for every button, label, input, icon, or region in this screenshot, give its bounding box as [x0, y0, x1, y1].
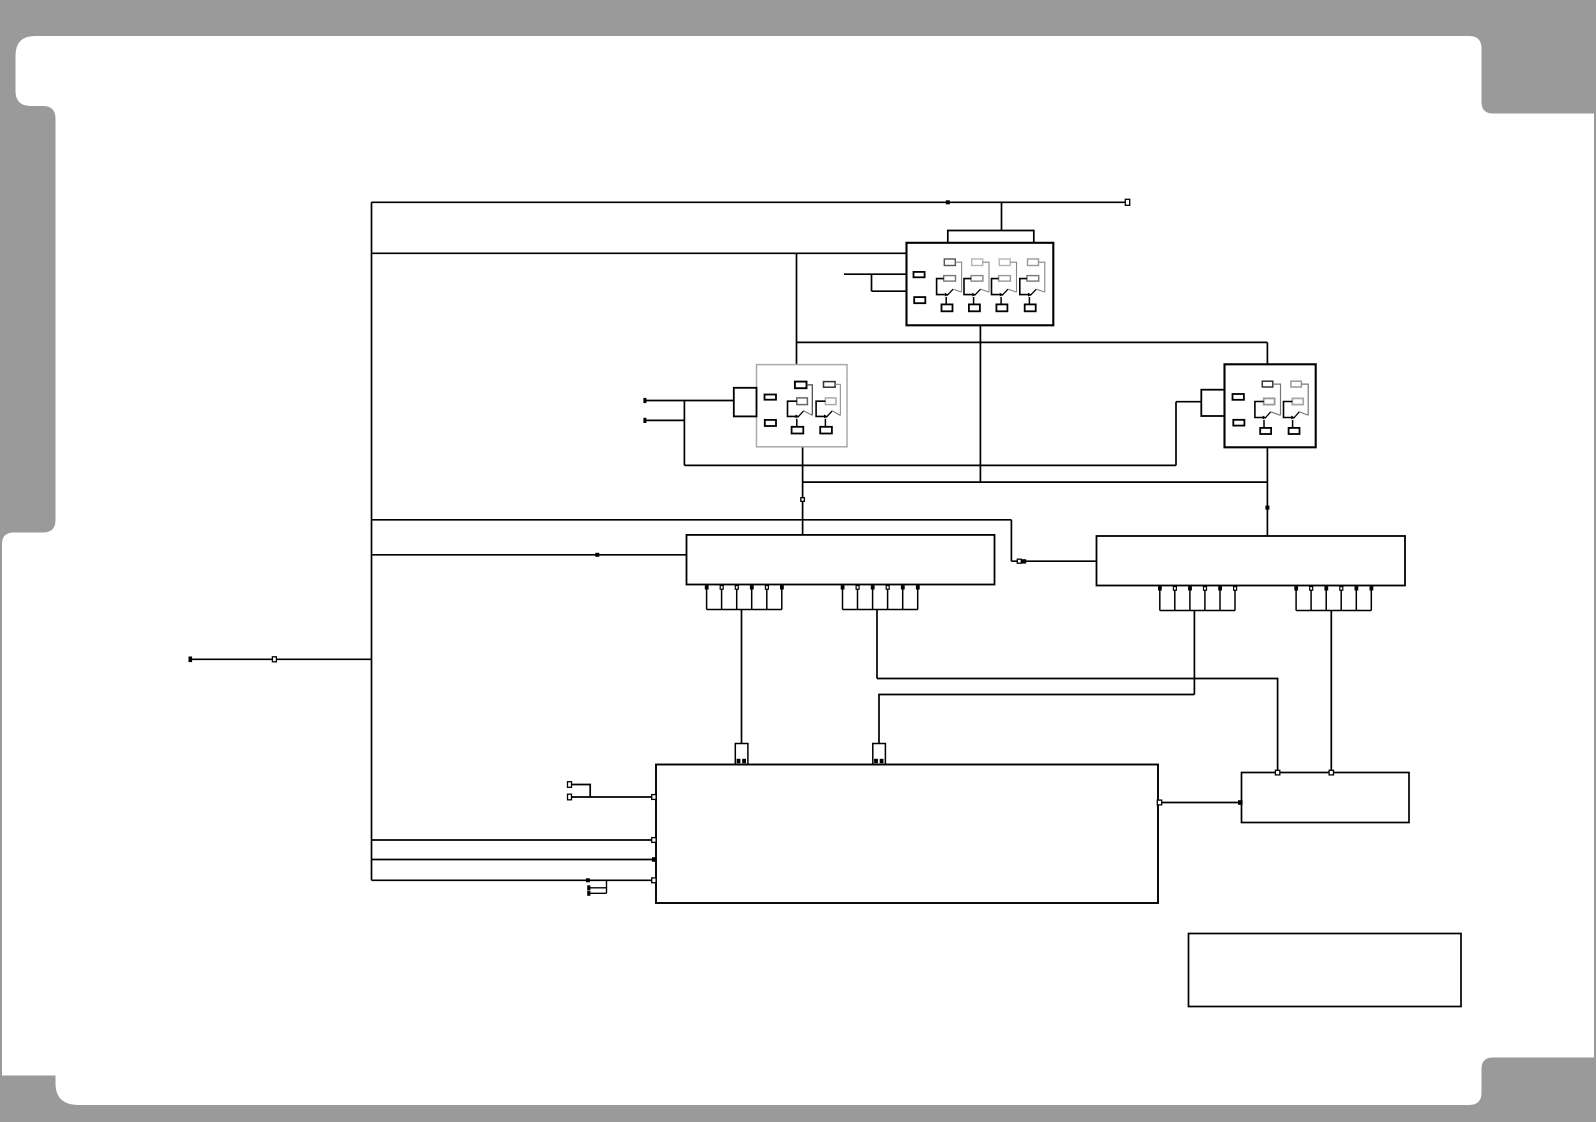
wire left input line [190, 658, 371, 660]
wire cross line to right relay [797, 341, 1268, 343]
U2 pin rect upper [765, 395, 777, 400]
U2 pin rect lower [765, 420, 776, 426]
stub connector S2 on U6 [873, 744, 886, 765]
wire to lower right box [877, 679, 1278, 771]
wire input line 1 [645, 400, 734, 402]
U1 pin rect lower [914, 297, 925, 303]
stub S1 pins [737, 759, 741, 763]
wire connector group2 down [876, 610, 878, 679]
relay cell K5 [788, 382, 813, 434]
pin on U6 output [1157, 800, 1161, 805]
wire into right long box [1011, 560, 1096, 562]
wire bus branch to left long box [372, 554, 687, 556]
relay cell K3 [992, 259, 1017, 311]
connector pin group 4 under U5 [1296, 587, 1371, 611]
mid relay box U2 [757, 365, 848, 447]
junction on right relay output [1265, 506, 1269, 510]
right driver box U5 [1097, 536, 1406, 586]
wire lower cross line [684, 464, 1176, 466]
wire tie line between relay outputs [803, 481, 1268, 483]
pin squares group 1 [705, 585, 784, 589]
connector pin group 1 under U4 [707, 586, 782, 610]
wire mid relay output [802, 447, 804, 535]
wire connector group4 down [1330, 611, 1332, 771]
wire top box output [979, 325, 981, 482]
pin squares group 2 [841, 585, 920, 589]
wire right bracket feed [1176, 401, 1201, 403]
jumper terminal 2 [587, 891, 590, 896]
pin on U7 top 2 [1329, 770, 1333, 775]
wire bus to big box pin 1 [372, 839, 655, 841]
left driver box U4 [687, 535, 995, 585]
wire mid relay feed vertical [796, 253, 798, 364]
pin squares group 3 [1158, 586, 1222, 590]
lower right box U7 [1242, 773, 1410, 823]
U3 pin rect lower [1233, 420, 1244, 426]
pin on U6 input 1 [652, 795, 656, 800]
relay cell K2 [964, 259, 989, 311]
top relay box U1 [907, 243, 1054, 325]
wire big box to lower right box [1158, 802, 1242, 804]
U1 pin rect upper [914, 272, 925, 277]
wire bus to big box pin 2 [372, 859, 655, 861]
stub connector S1 on U6 [735, 744, 748, 765]
wire right input vertical [1175, 402, 1177, 466]
relay cell K7 [1255, 381, 1281, 434]
connector mark on mid relay output [801, 498, 805, 502]
wire connector group3 down [1193, 611, 1195, 695]
connector bracket above U1 [948, 231, 1034, 243]
wire input join vertical [683, 401, 685, 466]
junction on top rail [946, 200, 950, 204]
wire stub2 riser [879, 695, 1194, 744]
terminal input 2 [643, 418, 646, 423]
pin on U6 input 2 [652, 838, 656, 843]
main control box U6 [656, 765, 1158, 904]
wire stub line A [844, 273, 907, 275]
pin on U7 top 1 [1275, 770, 1279, 775]
wire jumper vertical [606, 880, 608, 893]
wire bracket feed [1001, 202, 1003, 230]
U3 pin rect upper [1233, 394, 1244, 400]
connector pin group 3 under U5 [1160, 587, 1235, 611]
wire top rail [372, 201, 1128, 203]
pin on U6 input 4 [652, 878, 656, 883]
terminal end of top rail [1125, 199, 1129, 205]
wire bus to big box pin 3 [372, 879, 655, 881]
terminal left input [189, 657, 193, 663]
wire right relay feed [1266, 342, 1268, 364]
terminal input 1 [643, 398, 646, 403]
right relay box U3 [1225, 364, 1316, 447]
wire left bus [371, 202, 373, 880]
wire feed line to top relay box [372, 252, 907, 254]
wire corner vertical [1010, 520, 1012, 561]
relay cell K6 [816, 382, 840, 434]
wire stub line B [872, 290, 907, 292]
junction on U4 feed line [595, 553, 599, 557]
junction on U6 input 4 [586, 878, 590, 882]
pin squares group 4 [1294, 586, 1373, 590]
terminal a [568, 782, 572, 788]
wire input terminal a [570, 785, 591, 798]
relay cell K1 [937, 259, 962, 311]
pin on U6 input 3 [652, 857, 657, 862]
note box [1189, 934, 1462, 1007]
wire jumper leg 1 [589, 887, 607, 889]
connector pair on U5 feed line [1017, 559, 1021, 563]
wire connector group1 down [741, 610, 743, 744]
wire jumper leg 2 [589, 892, 607, 894]
wire input terminal b [570, 796, 655, 798]
wire bus branch to right block [372, 519, 1012, 521]
connector CN3 [1201, 390, 1224, 416]
wire input line 2 [645, 419, 684, 421]
stub S2 pins [874, 759, 878, 763]
connector pin group 2 under U4 [843, 586, 918, 610]
wire right relay output [1266, 447, 1268, 536]
pin on U7 input left [1238, 800, 1243, 805]
relay cell K8 [1284, 381, 1309, 434]
terminal b [568, 794, 572, 800]
relay cell K4 [1020, 259, 1045, 311]
wire stub branch vertical [871, 274, 873, 291]
connector mark on left input [272, 657, 276, 662]
connector CN2 [734, 388, 757, 417]
jumper terminal 1 [587, 885, 590, 890]
